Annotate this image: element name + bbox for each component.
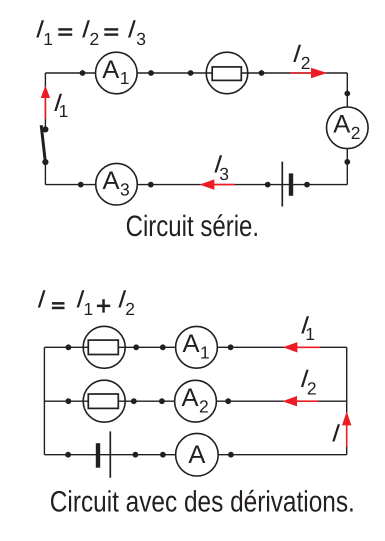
switch K lever	[41, 125, 45, 162]
svg-text:A: A	[188, 441, 205, 469]
equation I = I1 + I2	[36, 286, 135, 319]
node dot branch1 2	[133, 344, 139, 350]
node dot right wire lower	[344, 159, 350, 165]
wire branch 1	[44, 346, 346, 348]
node dot branch1 1	[66, 344, 72, 350]
node dot branch3 2	[133, 452, 139, 458]
wire branch 3	[44, 454, 346, 456]
svg-text:1: 1	[200, 343, 210, 363]
lamp L3	[83, 380, 125, 422]
current arrow I up	[342, 411, 351, 447]
node dot branch2 3	[159, 398, 165, 404]
svg-text:Circuit avec des dérivations.: Circuit avec des dérivations.	[50, 486, 355, 519]
label I2	[292, 40, 311, 73]
current arrow I2	[290, 68, 327, 78]
label I2b	[299, 365, 316, 399]
wire left side bottom circuit	[43, 347, 45, 454]
node dot right wire upper	[344, 91, 350, 97]
node dot branch2 4	[225, 398, 231, 404]
lamp L1	[206, 52, 248, 94]
svg-text:A: A	[103, 167, 120, 195]
node dot bottom wire 2	[148, 182, 154, 188]
node dot branch3 1	[65, 452, 71, 458]
svg-text:3: 3	[219, 164, 229, 184]
svg-text:2: 2	[301, 53, 311, 73]
svg-text:A: A	[183, 330, 200, 358]
label I1	[53, 89, 69, 121]
node dot branch3 4	[228, 452, 234, 458]
wire top side	[45, 72, 347, 74]
ammeter A1	[96, 52, 138, 94]
lamp L2	[83, 326, 125, 368]
ammeter A2	[327, 107, 369, 149]
node dot branch2 2	[131, 398, 137, 404]
node dot bottom wire 3	[265, 182, 271, 188]
svg-text:2: 2	[307, 379, 317, 399]
ammeter A3	[96, 163, 138, 205]
switch K bottom contact dot	[42, 159, 48, 165]
svg-text:1: 1	[59, 101, 69, 121]
ammeter A0	[176, 433, 219, 476]
battery B2 long plate	[109, 431, 111, 477]
node dot top wire 2	[148, 70, 154, 76]
wire branch 2	[44, 400, 346, 402]
node dot bottom wire 4	[304, 182, 310, 188]
switch K top contact dot	[42, 126, 48, 132]
battery B1 long plate	[281, 162, 283, 207]
svg-text:1: 1	[120, 68, 130, 88]
svg-text:Circuit série.: Circuit série.	[126, 210, 260, 243]
current arrow I1	[41, 86, 50, 120]
svg-text:A: A	[182, 384, 199, 412]
ammeter A1b	[176, 326, 218, 368]
battery B1 short thick plate	[289, 173, 293, 195]
svg-text:2: 2	[351, 123, 361, 143]
node dot branch3 3	[160, 452, 166, 458]
node dot branch1 4	[228, 344, 234, 350]
wire right side	[346, 73, 348, 185]
wire left side upper segment	[44, 73, 46, 129]
svg-text:1: 1	[43, 29, 53, 49]
svg-text:3: 3	[120, 179, 130, 199]
current arrow I3	[200, 179, 235, 189]
wire bottom side	[45, 184, 347, 186]
ammeter A2b	[175, 380, 217, 422]
svg-text:3: 3	[136, 29, 146, 49]
equation I1 = I2 = I3	[34, 16, 145, 49]
node dot branch1 3	[160, 344, 166, 350]
node dot top wire 3	[188, 70, 194, 76]
svg-text:2: 2	[125, 299, 135, 319]
svg-text:1: 1	[305, 324, 315, 344]
battery B2 short thick plate	[96, 443, 100, 468]
svg-text:1: 1	[84, 299, 94, 319]
node dot bottom wire 1	[78, 182, 84, 188]
svg-text:2: 2	[199, 396, 209, 416]
svg-text:A: A	[333, 111, 350, 139]
svg-text:A: A	[102, 56, 119, 84]
current arrow I2b	[282, 396, 318, 406]
label I1b	[300, 312, 315, 344]
current arrow I1b	[283, 342, 320, 352]
node dot top wire 4	[259, 70, 265, 76]
svg-text:2: 2	[90, 29, 100, 49]
wire left side lower segment	[44, 162, 46, 185]
node dot branch2 1	[66, 398, 72, 404]
wire right side bottom circuit	[346, 347, 348, 454]
node dot top wire 1	[80, 70, 86, 76]
label I3	[213, 150, 229, 183]
